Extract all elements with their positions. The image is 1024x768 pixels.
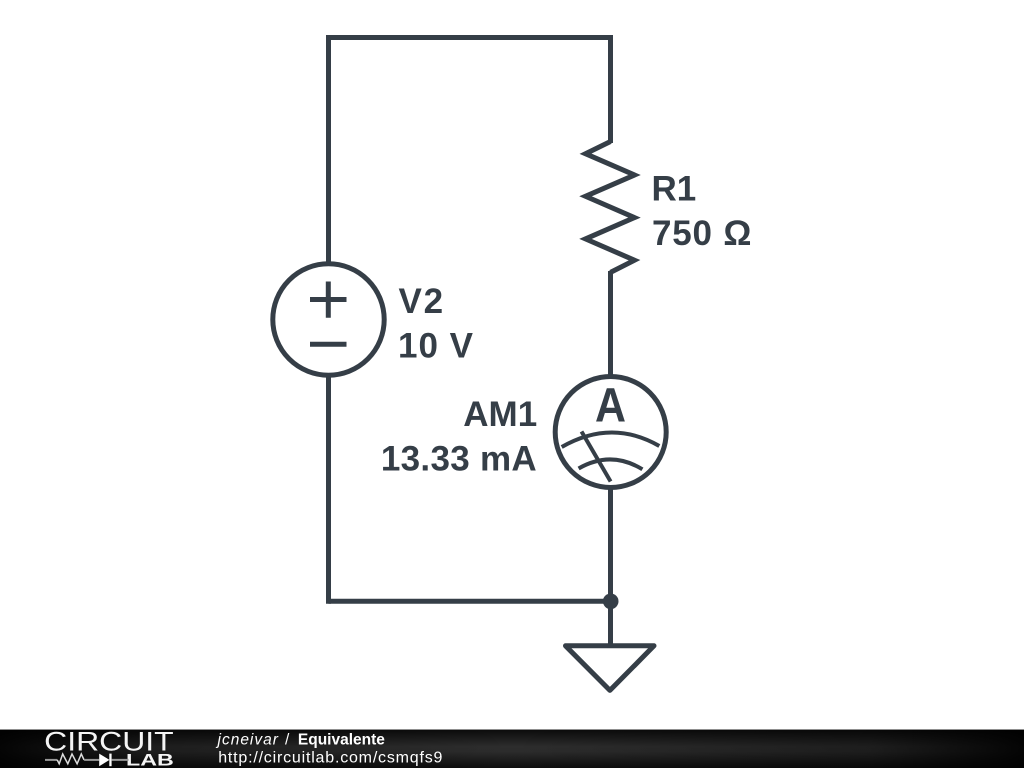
svg-text:V2: V2 [399,282,445,321]
svg-text:R1: R1 [652,169,697,208]
wire right vertical upper (top to R1) [608,38,613,144]
wire left vertical (V2 branch) [326,35,331,604]
ammeter needle [582,432,611,482]
footer bar [0,729,1024,768]
wire ground stub [608,601,613,646]
voltage source V2 circle [273,264,384,375]
logo lead wire middle [84,759,99,761]
ammeter AM1 circle [555,377,666,488]
wire right vertical lower (R1 to node) [608,271,613,601]
wire top horizontal [326,35,613,40]
svg-text:A: A [595,379,626,432]
svg-text:/: / [285,731,290,748]
logo lead wire left [45,759,57,761]
logo lead wire right [112,759,129,761]
svg-text:Equivalente: Equivalente [298,731,385,748]
logo diode triangle [99,754,109,767]
footer bar vignette [0,729,1024,768]
footer bar top highlight line [0,729,1024,730]
svg-text:13.33 mA: 13.33 mA [381,439,537,478]
svg-text:750 Ω: 750 Ω [652,214,752,253]
ground symbol [566,646,655,691]
svg-text:10 V: 10 V [398,326,474,365]
svg-text:jcneivar: jcneivar [216,731,279,748]
V2 plus sign [310,282,347,318]
logo resistor zigzag [57,754,84,764]
svg-text:http://circuitlab.com/csmqfs9: http://circuitlab.com/csmqfs9 [218,749,443,766]
wire bottom horizontal [329,599,611,604]
ammeter meter arc upper [562,432,660,447]
logo diode bar [109,754,111,767]
V2 minus sign [310,342,347,347]
svg-text:AM1: AM1 [463,395,537,434]
ammeter meter arc lower [579,459,643,469]
svg-text:LAB: LAB [126,751,174,768]
resistor R1 zigzag [586,142,635,273]
node junction dot [603,594,619,610]
